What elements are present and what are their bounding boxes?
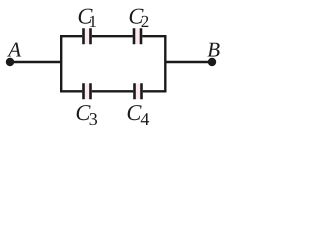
svg-text:A: A: [6, 38, 21, 62]
wire bottom right segment: [143, 90, 167, 92]
capacitor C4: [135, 83, 142, 99]
svg-text:2: 2: [141, 12, 150, 31]
wire bottom left segment: [60, 90, 82, 92]
wire top left segment: [60, 35, 82, 37]
wire right junction to B: [165, 61, 209, 63]
wire left vertical: [60, 35, 62, 93]
wire top middle segment: [92, 35, 133, 37]
svg-text:B: B: [207, 38, 220, 62]
svg-text:4: 4: [140, 109, 149, 129]
wire bottom middle segment: [92, 90, 134, 92]
capacitor C1: [84, 28, 91, 44]
svg-text:3: 3: [89, 109, 98, 129]
svg-text:1: 1: [89, 12, 98, 31]
terminal A dot: [6, 58, 14, 66]
capacitor C3: [84, 83, 91, 99]
wire top right segment: [142, 35, 166, 37]
wire A to left junction: [13, 61, 62, 63]
capacitor C2: [134, 28, 141, 44]
terminal B dot: [208, 58, 216, 66]
wire right vertical: [164, 35, 166, 93]
